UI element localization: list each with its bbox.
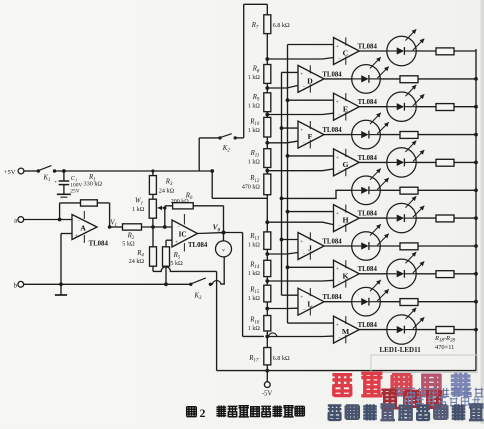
node Vo — [222, 231, 226, 235]
svg-text:1 kΩ: 1 kΩ — [248, 271, 261, 277]
caption Figure 2 text — [187, 407, 197, 417]
junction bus tap — [286, 154, 290, 158]
resistor R28 470 ohm — [436, 327, 454, 334]
wire comparator L output to LED10 — [324, 301, 352, 303]
junction right bus — [474, 77, 478, 81]
switch K2 drop wire — [198, 138, 200, 171]
resistor R18 470 ohm — [436, 48, 454, 55]
wire Vo down to ladder bottom node — [242, 233, 244, 337]
resistor R5 5k — [165, 240, 167, 247]
junction ladder node — [265, 220, 269, 224]
wire ladder segment — [266, 277, 268, 286]
wire ladder node to comparator H bottom input — [267, 222, 333, 224]
resistor R25 470 ohm — [400, 243, 418, 250]
junction right bus — [474, 133, 478, 137]
wire comparator J output to LED8 — [324, 245, 352, 247]
svg-text:TL084: TL084 — [358, 99, 378, 106]
node V1 — [108, 225, 112, 229]
op-amp comparator F TL084 — [298, 121, 324, 148]
LED7 light arrows — [406, 196, 417, 207]
svg-text:−: − — [303, 308, 306, 313]
wire resistor to right bus — [418, 134, 476, 136]
wire R4 to -5V rail — [152, 266, 154, 271]
svg-text:TL084: TL084 — [358, 211, 378, 218]
wire resistor to right bus — [418, 301, 476, 303]
op-amp comparator L TL084 — [298, 288, 324, 315]
wire feedback to V1 — [97, 202, 109, 204]
svg-text:−: − — [338, 225, 341, 230]
wire -5V stub — [266, 371, 268, 382]
op-amp comparator K TL084 — [334, 260, 360, 287]
LED LED5 — [387, 148, 416, 177]
voltmeter — [223, 233, 225, 241]
svg-text:−: − — [338, 113, 341, 118]
resistor R24 470 ohm — [436, 215, 454, 222]
op-amp comparator E TL084 — [334, 93, 360, 120]
wire ladder segment — [266, 249, 268, 260]
junction wiper — [163, 206, 166, 209]
resistor R10 1 kohm — [264, 117, 271, 137]
junction — [62, 169, 66, 173]
svg-text:+5V: +5V — [4, 169, 16, 176]
resistor R21 470 ohm — [400, 132, 418, 139]
LED10 light arrows — [370, 280, 381, 291]
wire resistor to right bus — [454, 329, 476, 331]
svg-text:+: + — [336, 322, 339, 328]
node a junction — [58, 218, 62, 222]
svg-text:TL084: TL084 — [89, 240, 109, 247]
svg-text:+: + — [336, 155, 339, 161]
switch K1 — [37, 169, 40, 172]
-5V supply terminal — [264, 382, 270, 388]
svg-text:C: C — [343, 49, 349, 58]
svg-text:TL084: TL084 — [358, 155, 378, 162]
wire reference bus to comparator K top input — [288, 266, 334, 268]
watermark small blue text row2 — [405, 398, 412, 405]
wire wiper to summing node — [164, 208, 166, 227]
junction bus tap — [280, 197, 284, 201]
junction ladder node — [265, 169, 269, 173]
junction ladder node — [265, 279, 269, 283]
switch K3 — [189, 283, 192, 286]
svg-text:−: − — [338, 280, 341, 285]
resistor R3 24k — [152, 171, 154, 176]
wire ladder segment — [266, 137, 268, 149]
op-amp comparator M TL084 — [334, 316, 360, 343]
LED3 light arrows — [406, 85, 417, 96]
wire ladder segment — [266, 168, 268, 175]
wire reference bus to comparator D top input — [282, 71, 299, 73]
svg-text:−: − — [177, 224, 180, 230]
junction ladder bottom node — [265, 369, 269, 373]
svg-text:5 kΩ: 5 kΩ — [122, 240, 135, 247]
svg-text:6.8 kΩ: 6.8 kΩ — [273, 355, 290, 362]
wire IC output — [198, 232, 224, 235]
junction right bus — [474, 300, 478, 304]
junction ladder node — [265, 113, 269, 117]
svg-text:K: K — [342, 271, 348, 280]
LED8 light arrows — [370, 224, 381, 235]
svg-text:b: b — [14, 282, 18, 289]
svg-text:L: L — [307, 299, 312, 308]
resistor R23 470 ohm — [400, 187, 418, 194]
wire ladder segment — [266, 195, 268, 232]
resistor R2 5k — [123, 224, 142, 230]
junction ladder node — [265, 57, 269, 61]
LED LED6 — [352, 176, 381, 205]
wire ladder node to comparator M bottom input — [267, 335, 333, 337]
resistor R11 1 kohm — [264, 149, 271, 168]
svg-text:TL084: TL084 — [358, 322, 378, 329]
wire LED5 to resistor — [416, 161, 436, 163]
node b junction — [59, 282, 63, 286]
wire summing line to IC inverting input — [142, 226, 173, 228]
wire ladder node to comparator D bottom input — [267, 85, 298, 88]
op-amp A TL084 — [72, 215, 97, 240]
resistor R20 470 ohm — [436, 104, 454, 111]
resistor R26 470 ohm — [436, 271, 454, 278]
svg-text:−: − — [338, 58, 341, 63]
W1 wiper arm — [158, 207, 165, 209]
junction right bus — [474, 272, 478, 276]
LED6 light arrows — [370, 169, 381, 180]
LED11 light arrows — [406, 308, 417, 319]
svg-text:TL084: TL084 — [358, 266, 378, 273]
wire ladder node to comparator E bottom input — [267, 113, 333, 114]
junction right bus — [474, 244, 478, 248]
svg-text:+: + — [336, 100, 339, 106]
wire ladder node to comparator K bottom input — [267, 279, 333, 282]
wire R5 to ground rail — [165, 266, 167, 284]
watermark box — [371, 355, 477, 373]
svg-text:−: − — [303, 86, 306, 91]
junction bus tap — [286, 210, 290, 214]
resistor R14 1 kohm — [264, 260, 271, 276]
wire reference bus to comparator G top input — [288, 155, 334, 157]
junction right bus — [474, 161, 478, 165]
svg-text:1 kΩ: 1 kΩ — [248, 326, 261, 332]
junction bus tap — [280, 126, 284, 130]
wire comparator K output to LED9 — [359, 273, 387, 275]
LED4 light arrows — [370, 113, 381, 124]
wire LED9 to resistor — [416, 273, 436, 275]
LED LED9 — [387, 259, 416, 288]
op-amp comparator D TL084 — [298, 65, 324, 92]
svg-text:TL084: TL084 — [322, 294, 342, 301]
junction — [164, 282, 168, 286]
wire — [110, 226, 123, 228]
svg-text:24 kΩ: 24 kΩ — [129, 258, 145, 265]
wire resistor to right bus — [418, 78, 476, 80]
svg-text:M: M — [342, 327, 350, 336]
wire K2 up to ladder top — [235, 137, 244, 139]
resistor R13 1 kohm — [264, 232, 271, 250]
wire LED2 to resistor — [380, 78, 400, 80]
svg-text:−: − — [303, 253, 306, 258]
wire reference bus to comparator F top input — [282, 127, 299, 129]
LED9 light arrows — [406, 252, 417, 263]
wire LED10 to resistor — [380, 301, 400, 303]
svg-text:+: + — [336, 211, 339, 217]
svg-text:E: E — [343, 104, 348, 113]
wire LED8 to resistor — [380, 245, 400, 247]
svg-text:F: F — [308, 132, 313, 141]
junction right bus — [474, 216, 478, 220]
LED LED4 — [352, 120, 381, 149]
svg-text:1 kΩ: 1 kΩ — [248, 243, 261, 249]
resistor R9 1 kohm — [264, 93, 271, 112]
wire resistor to right bus — [454, 106, 476, 108]
wire +5V rail — [55, 170, 213, 172]
LED2 light arrows — [370, 57, 381, 68]
junction bus tap — [286, 265, 290, 269]
svg-text:a: a — [14, 218, 17, 225]
svg-text:330 kΩ: 330 kΩ — [84, 181, 103, 188]
svg-text:−: − — [338, 336, 341, 341]
LED LED1 — [387, 36, 416, 65]
resistor R8 1 kohm — [264, 65, 271, 84]
op-amp comparator C TL084 — [334, 38, 360, 65]
svg-text:LED1-LED11: LED1-LED11 — [380, 346, 422, 354]
svg-text:+: + — [300, 295, 303, 301]
svg-text:TL084: TL084 — [322, 127, 342, 134]
LED5 light arrows — [406, 141, 417, 152]
svg-text:+: + — [300, 72, 303, 78]
resistor R16 1 kohm — [264, 316, 271, 332]
bus B1 vertical (left comparators reference) — [281, 72, 283, 295]
wire resistor to right bus — [418, 245, 476, 247]
wire b ground rail — [24, 283, 191, 285]
ground symbol — [60, 284, 62, 295]
ground for C1 — [57, 193, 71, 195]
wire ladder segment — [266, 302, 268, 316]
svg-text:G: G — [342, 160, 348, 169]
svg-text:TL084: TL084 — [322, 71, 342, 78]
input terminal b — [18, 281, 24, 287]
LED LED11 — [387, 315, 416, 344]
junction ladder node — [265, 335, 269, 339]
resistor R22 470 ohm — [436, 159, 454, 166]
junction ladder node — [265, 252, 269, 256]
svg-text:-5V: -5V — [262, 391, 273, 398]
watermark bottom slate text — [328, 406, 342, 421]
watermark dark red text — [381, 390, 398, 408]
resistor R27 470 ohm — [400, 299, 418, 306]
wire LED1 to resistor — [416, 50, 436, 52]
wire reference bus to comparator M top input — [288, 322, 334, 324]
svg-text:1 kΩ: 1 kΩ — [248, 296, 261, 302]
junction — [210, 169, 214, 173]
LED LED3 — [387, 92, 416, 121]
junction right bus — [474, 188, 478, 192]
svg-text:6.8 kΩ: 6.8 kΩ — [273, 22, 290, 29]
wire reference bus to comparator L top input — [282, 294, 299, 296]
wire K3 to meter with hop — [210, 257, 224, 284]
svg-text:−: − — [338, 169, 341, 174]
LED LED10 — [352, 287, 381, 316]
svg-text:D: D — [307, 77, 313, 86]
wire feedback riser — [59, 203, 61, 220]
LED LED7 — [387, 203, 416, 232]
wire ladder segment — [266, 331, 268, 348]
wire ladder node to comparator C bottom input — [267, 58, 333, 60]
junction — [151, 169, 154, 172]
potentiometer W1 1k — [152, 194, 154, 199]
svg-text:TL084: TL084 — [322, 238, 342, 245]
svg-text:H: H — [342, 216, 348, 225]
svg-text:1 kΩ: 1 kΩ — [248, 159, 261, 165]
svg-text:A: A — [80, 223, 86, 232]
wire resistor to right bus — [454, 273, 476, 275]
wire reference bus to comparator E top input — [288, 99, 334, 101]
capacitor C1 — [63, 171, 65, 181]
wire comparator E output to LED3 — [359, 106, 387, 108]
wire ladder segment — [266, 112, 268, 118]
junction ladder node — [265, 141, 269, 145]
wire resistor to right bus — [454, 161, 476, 163]
svg-text:24 kΩ: 24 kΩ — [159, 187, 175, 194]
op-amp IC TL084 — [172, 220, 198, 247]
junction — [151, 225, 155, 229]
svg-text:25V: 25V — [70, 189, 79, 195]
wire hop on M node wire — [267, 333, 277, 337]
resistor R17 6.8 kohm — [264, 348, 271, 365]
svg-text:v: v — [222, 248, 225, 254]
wire +5V midpoint injection — [211, 171, 213, 198]
wire comparator G output to LED5 — [359, 161, 387, 163]
wire ladder segment — [266, 4, 268, 15]
svg-text:+: + — [75, 233, 78, 239]
wire Vo to right — [224, 232, 243, 234]
svg-text:200 kΩ: 200 kΩ — [171, 199, 190, 205]
svg-text:TL084: TL084 — [188, 242, 208, 249]
wire reference bus to comparator J top input — [282, 239, 299, 241]
wire IC non-inverting input — [166, 239, 172, 241]
resistor R15 1 kohm — [264, 285, 271, 302]
resistor R7 6.8 kohm — [264, 15, 271, 34]
svg-text:+: + — [300, 239, 303, 245]
svg-text:2: 2 — [200, 407, 206, 420]
wire comparator D output to LED2 — [324, 78, 352, 80]
wire LED4 to resistor — [380, 134, 400, 136]
svg-text:+: + — [54, 179, 57, 185]
wire reference bus to comparator H top input — [288, 211, 334, 213]
wire ladder node to comparator L bottom input — [267, 307, 298, 309]
junction bus tap — [286, 98, 290, 102]
LED LED8 — [352, 232, 381, 261]
svg-text:−: − — [303, 141, 306, 146]
wire comparator H output to LED7 — [359, 217, 387, 219]
wire bus to LED6 (direct channel, no comparator) — [282, 190, 352, 198]
svg-text:1 kΩ: 1 kΩ — [248, 128, 261, 134]
junction — [163, 225, 167, 229]
svg-text:J: J — [308, 244, 312, 253]
junction right bus — [474, 328, 478, 332]
op-amp comparator H TL084 — [334, 205, 360, 232]
wire R6 to Vo — [193, 205, 223, 207]
junction bus tap — [280, 238, 284, 242]
svg-text:1 kΩ: 1 kΩ — [248, 75, 261, 81]
resistor R6 200k feedback — [165, 205, 173, 207]
svg-text:1 kΩ: 1 kΩ — [132, 206, 145, 213]
wire — [24, 170, 37, 172]
svg-text:470 kΩ: 470 kΩ — [242, 185, 261, 191]
wire LED6 to resistor — [380, 189, 400, 191]
svg-text:IC: IC — [179, 231, 187, 239]
wire ladder node to comparator F bottom input — [267, 141, 298, 143]
wire ladder bottom — [266, 365, 268, 371]
svg-text:+: + — [175, 240, 178, 246]
svg-text:1 kΩ: 1 kΩ — [248, 103, 261, 109]
+5V supply terminal — [18, 168, 24, 174]
wire comparator M output to LED11 — [359, 329, 387, 331]
wire LED3 to resistor — [416, 106, 436, 108]
wire comparator C output to LED1 — [359, 50, 387, 52]
wire resistor to right bus — [418, 189, 476, 191]
svg-text:+: + — [300, 127, 303, 133]
wire reference bus to comparator C top input — [288, 44, 334, 46]
resistor R1 330k feedback — [81, 200, 98, 206]
wire ladder segment — [266, 34, 268, 65]
watermark red text big — [332, 375, 352, 397]
LED LED2 — [352, 65, 381, 94]
bus B2 vertical (right comparators reference) — [287, 45, 289, 324]
svg-text:470×11: 470×11 — [435, 344, 454, 351]
op-amp comparator J TL084 — [298, 233, 324, 260]
svg-text:+: + — [336, 267, 339, 273]
op-amp comparator G TL084 — [334, 149, 360, 176]
resistor R4 24k — [152, 227, 154, 247]
svg-text:TL084: TL084 — [358, 43, 378, 50]
junction ladder node — [265, 307, 269, 311]
watermark small blue text — [396, 388, 404, 398]
wire to op-amp A non-inverting input — [60, 234, 62, 285]
wire comparator F output to LED4 — [324, 134, 352, 136]
wire LED7 to resistor — [416, 217, 436, 219]
wire ladder node to comparator G bottom input — [267, 169, 333, 171]
wire resistor to right bus — [454, 217, 476, 219]
wire resistor to right bus — [454, 50, 476, 52]
wire input a to op-amp A inverting input — [24, 219, 72, 221]
LED1 light arrows — [406, 29, 417, 40]
input terminal a — [18, 217, 24, 223]
svg-text:5 kΩ: 5 kΩ — [170, 260, 183, 267]
switch K2 — [218, 136, 221, 139]
bus right vertical — [475, 49, 477, 371]
wire ladder segment — [266, 83, 268, 92]
wire bottom -5V rail — [217, 370, 476, 372]
resistor R19 470 ohm — [400, 76, 418, 83]
junction right bus — [474, 105, 478, 109]
junction ladder node — [265, 86, 269, 90]
wire ladder node to comparator J bottom input — [267, 253, 298, 255]
resistor R12 470 kohm — [264, 174, 271, 195]
svg-text:+: + — [336, 44, 339, 50]
wire LED11 to resistor — [416, 329, 436, 331]
